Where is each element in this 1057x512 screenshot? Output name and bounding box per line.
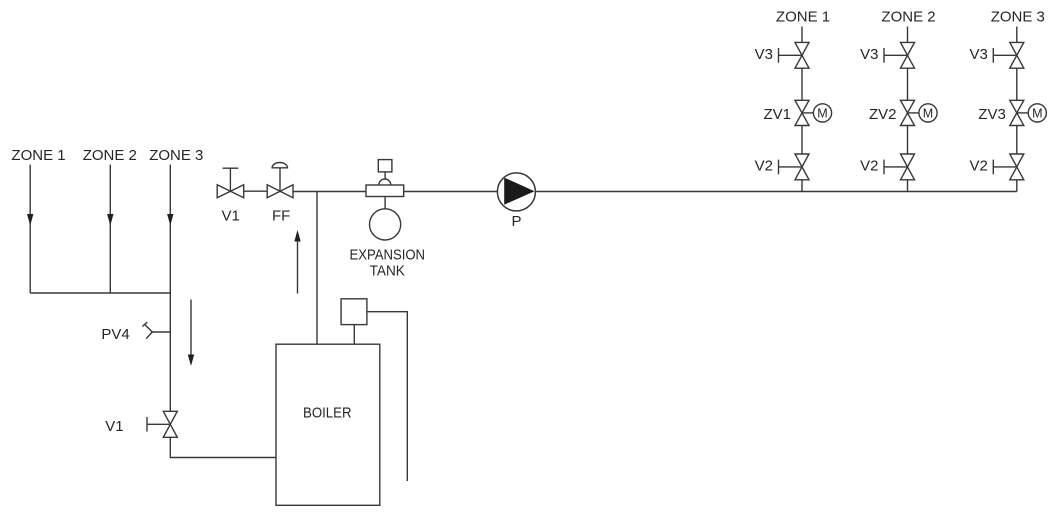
valve FF (fast fill with dome) — [267, 163, 293, 198]
wire vent to separator — [384, 172, 386, 179]
aquastat control box on boiler — [341, 299, 367, 325]
flow arrow supply up — [297, 241, 299, 294]
svg-text:V2: V2 — [860, 157, 878, 174]
svg-text:PV4: PV4 — [101, 326, 129, 343]
svg-text:V1: V1 — [105, 418, 123, 435]
svg-text:EXPANSION: EXPANSION — [350, 246, 426, 263]
wire return header horizontal — [30, 292, 170, 294]
svg-text:M: M — [817, 106, 827, 120]
svg-text:V3: V3 — [755, 46, 773, 63]
valve V1 (supply, horizontal gate with stem) — [217, 168, 244, 198]
purge valve PV4 — [142, 322, 170, 338]
flow arrow zone 3 down — [167, 214, 173, 226]
wire return to boiler (elbow) — [170, 437, 276, 457]
svg-text:V2: V2 — [969, 157, 987, 174]
valve V2 zone 2 — [884, 154, 915, 180]
svg-text:BOILER: BOILER — [303, 405, 352, 422]
wire V3 to ZV1 — [801, 68, 803, 100]
svg-text:TANK: TANK — [370, 263, 405, 280]
wire V2 to main (zone 3 elbow) — [1016, 180, 1018, 192]
valve V2 zone 1 — [779, 154, 810, 180]
svg-text:P: P — [512, 213, 522, 230]
svg-text:M: M — [1032, 106, 1042, 120]
wire zone 3 inlet — [1016, 27, 1018, 43]
valve V2 zone 3 — [993, 154, 1024, 180]
wire boiler supply riser — [316, 192, 318, 345]
svg-text:ZV2: ZV2 — [869, 106, 897, 123]
boiler — [276, 344, 380, 505]
zone valve ZV1 with motor — [795, 100, 832, 125]
wire ZV1 to V2 — [801, 126, 803, 155]
zone valve ZV3 with motor — [1010, 100, 1047, 125]
svg-text:ZONE 1: ZONE 1 — [776, 8, 830, 25]
flow arrow return down — [190, 300, 192, 356]
svg-text:V3: V3 — [969, 46, 987, 63]
zone valve ZV2 with motor — [901, 100, 938, 125]
svg-text:V3: V3 — [860, 46, 878, 63]
wire separator to tank — [384, 197, 386, 209]
wire zone 2 inlet — [907, 27, 909, 43]
svg-text:ZONE 2: ZONE 2 — [881, 8, 935, 25]
svg-text:ZONE 1: ZONE 1 — [11, 147, 65, 164]
wire V1 to FF — [244, 190, 268, 192]
svg-text:V1: V1 — [222, 207, 240, 224]
wire relief discharge pipe — [367, 312, 407, 481]
svg-text:FF: FF — [272, 207, 290, 224]
valve V1 (return, vertical) — [147, 411, 177, 437]
flow arrow zone 2 down — [107, 214, 113, 226]
wire zone 1 return drop — [29, 165, 31, 293]
flow arrow zone 1 down — [27, 214, 33, 226]
wire zone 3 return drop — [169, 165, 171, 412]
wire control box to boiler top — [353, 325, 355, 345]
wire V3 to ZV2 — [907, 68, 909, 100]
svg-text:ZV3: ZV3 — [978, 106, 1006, 123]
svg-text:V2: V2 — [755, 157, 773, 174]
svg-text:ZONE 2: ZONE 2 — [83, 147, 137, 164]
svg-text:ZV1: ZV1 — [763, 106, 791, 123]
pump P — [497, 173, 535, 211]
valve V3 zone 2 — [884, 42, 915, 68]
svg-text:ZONE 3: ZONE 3 — [991, 8, 1045, 25]
wire ZV3 to V2 — [1016, 126, 1018, 155]
air vent square on separator — [378, 160, 392, 172]
expansion tank air separator fitting — [366, 179, 404, 197]
wire ZV2 to V2 — [907, 126, 909, 155]
wire V2 to main — [801, 180, 803, 192]
svg-text:M: M — [923, 106, 933, 120]
wire zone 1 inlet — [801, 27, 803, 43]
expansion tank vessel — [370, 209, 401, 240]
wire V2 to main (zone 2) — [907, 180, 909, 192]
valve V3 zone 3 — [993, 42, 1024, 68]
valve V3 zone 1 — [779, 42, 810, 68]
label EXPANSION TANK — [350, 246, 426, 279]
wire zone 2 return drop — [109, 165, 111, 293]
svg-text:ZONE 3: ZONE 3 — [149, 147, 203, 164]
wire V3 to ZV3 — [1016, 68, 1018, 100]
wire main supply line — [293, 191, 1017, 193]
